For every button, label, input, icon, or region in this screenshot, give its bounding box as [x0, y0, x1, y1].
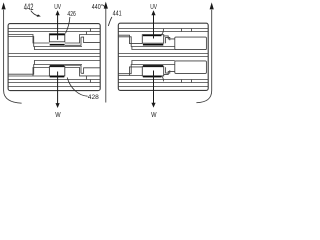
device 441 lower cell trench — [118, 61, 191, 83]
leader 428 — [67, 78, 87, 97]
device 442 upper cell trench — [8, 29, 100, 50]
UV arrow (device 442) — [57, 14, 59, 40]
device 441 upper-right inner box — [175, 37, 207, 50]
svg-text:UV: UV — [150, 2, 157, 11]
electrode (device 441 upper cell) — [142, 35, 163, 44]
svg-text:428: 428 — [88, 94, 99, 101]
device 442 lower cell trench — [8, 61, 100, 83]
electrode 428 (lower cell) — [49, 67, 64, 76]
svg-text:442: 442 — [24, 2, 34, 12]
W arrow (device 442) — [57, 72, 59, 105]
leader 441 — [108, 17, 112, 26]
device 442 outline — [8, 24, 100, 91]
device 442 layer lines — [8, 29, 100, 87]
svg-text:W: W — [151, 110, 157, 119]
svg-text:W: W — [55, 110, 61, 119]
electrode 426 (upper cell) — [49, 34, 64, 42]
UV arrow (device 441) — [153, 14, 155, 39]
svg-text:426: 426 — [67, 11, 76, 18]
electrode (device 441 lower cell) — [142, 67, 163, 76]
device 441 layer lines — [118, 29, 208, 87]
leader 440 — [101, 5, 105, 8]
leader 442 — [31, 11, 38, 16]
device 441 outline — [118, 23, 208, 90]
middle light arrow (up) — [105, 7, 107, 102]
svg-text:UV: UV — [54, 2, 61, 11]
W arrow (device 441) — [153, 71, 155, 104]
device 441 upper cell trench — [118, 29, 191, 50]
svg-text:440: 440 — [92, 3, 101, 11]
svg-text:441: 441 — [113, 8, 122, 17]
leader 426 — [66, 17, 70, 33]
device 441 lower-right inner box — [175, 61, 207, 74]
right light arrow (J-shaped, up) — [196, 10, 211, 103]
left light arrow (J-shaped, up) — [4, 10, 22, 103]
